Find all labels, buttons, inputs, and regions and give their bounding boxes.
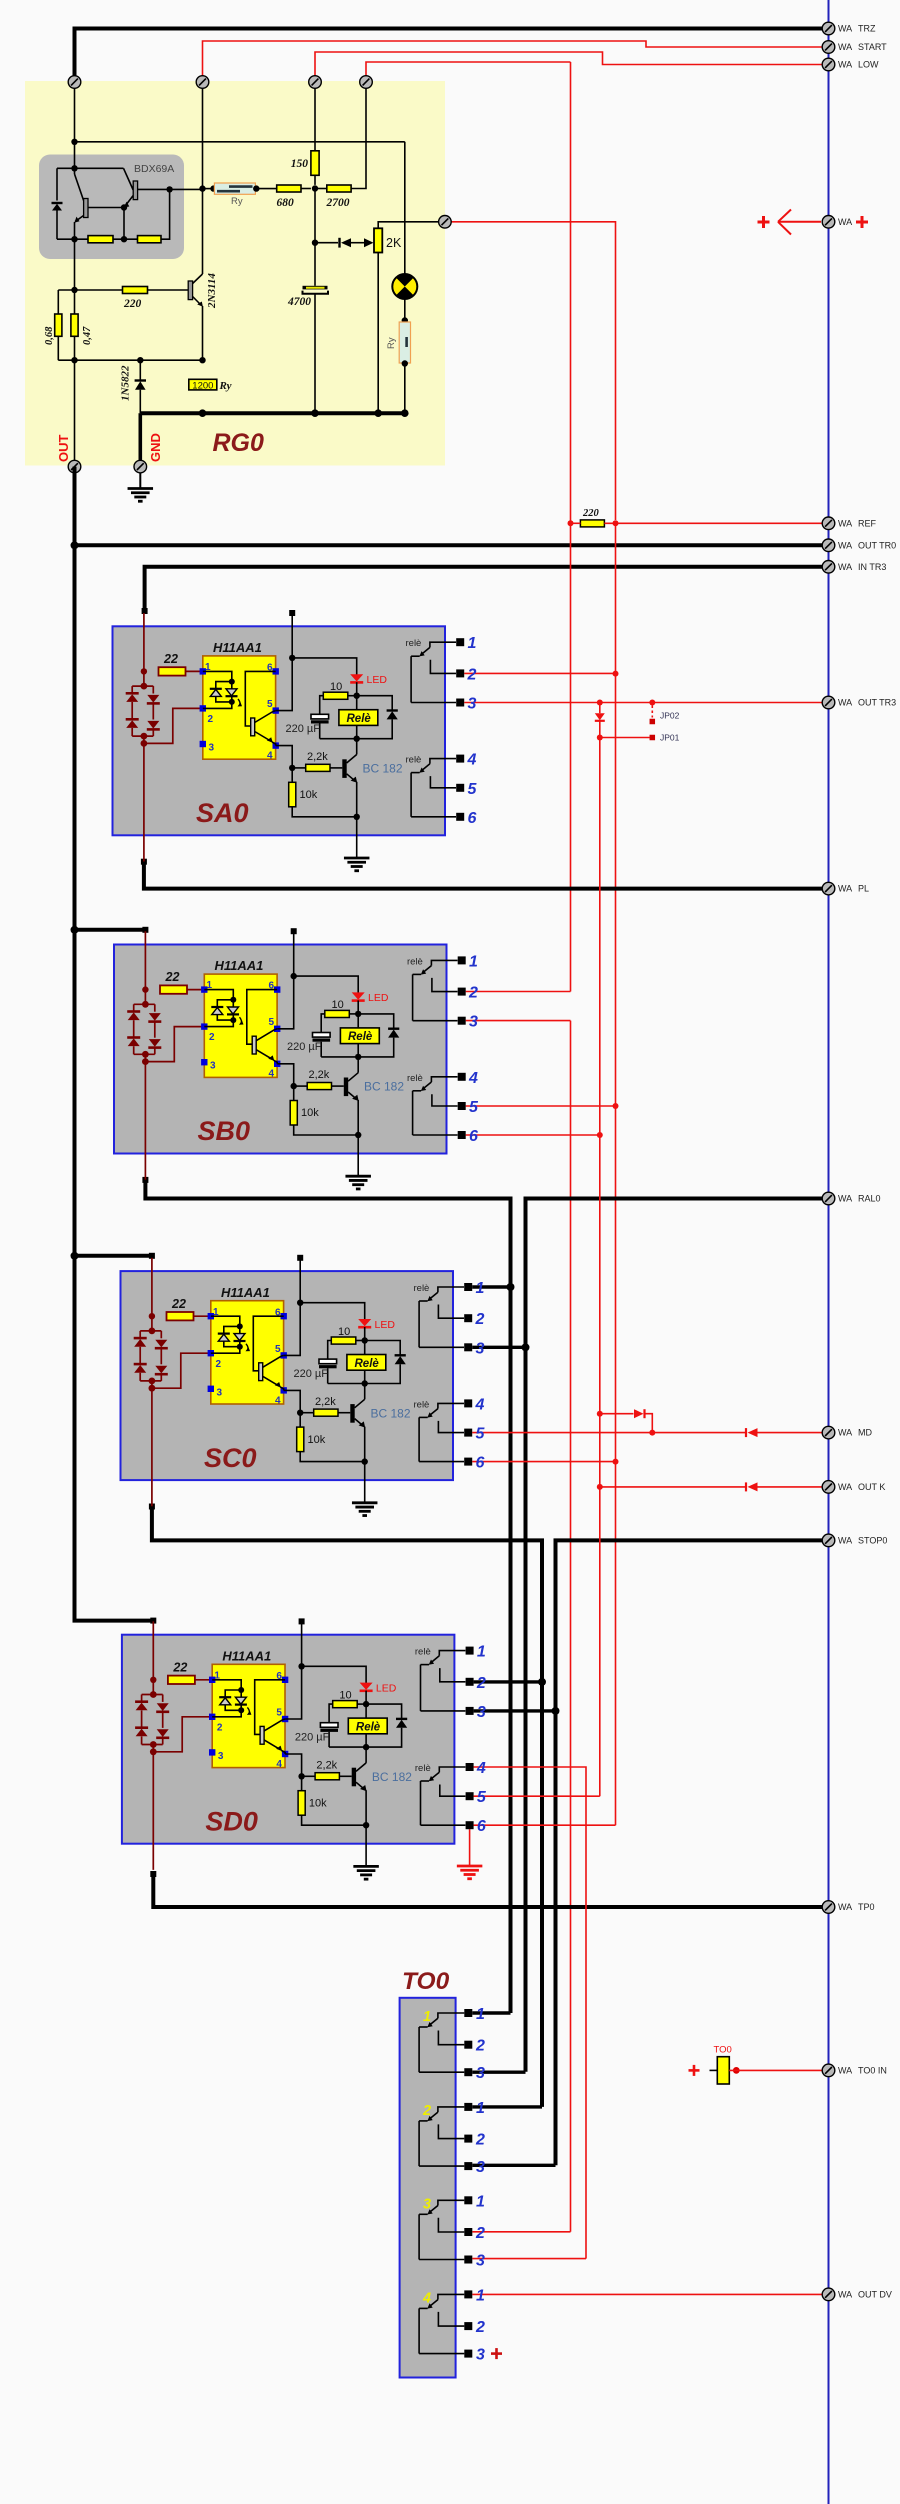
svg-text:WA: WA	[838, 217, 852, 227]
junction coil bottom SA0	[354, 736, 360, 742]
ground symbol SB0	[345, 1176, 371, 1189]
terminal OUT	[68, 460, 81, 473]
wire BDX69A collector rail	[74, 142, 76, 169]
red bus A segment 2	[570, 1021, 572, 2232]
wire to module ground SC0	[364, 1462, 366, 1503]
svg-text:Ry: Ry	[231, 196, 243, 207]
junction bridge tap SB0	[142, 1058, 149, 1065]
junction OUT TR0	[71, 541, 79, 549]
svg-text:WA: WA	[838, 1194, 852, 1204]
svg-text:4: 4	[267, 751, 273, 762]
svg-text:5: 5	[469, 1099, 479, 1116]
wire SB0 contact 2 to bus A	[466, 991, 571, 993]
terminal WA START	[822, 41, 835, 54]
wire pin4 to base node SD0	[285, 1754, 302, 1776]
opto phototransistor SD0	[255, 1680, 285, 1754]
relay coil box SD0	[348, 1718, 387, 1734]
terminal WA LOW	[822, 58, 835, 71]
wire SD0 contact 6 red	[474, 1824, 616, 1826]
optocoupler H11AA1 SD0	[212, 1664, 285, 1767]
wire SB0 contact 3 to bus A	[466, 1020, 571, 1022]
relay contact group 1 SD0	[421, 1651, 466, 1711]
wire LOW net from RG0 terminal 3	[315, 52, 822, 76]
wire STOP0 terminal segment	[556, 1540, 823, 2165]
jumper square JP01	[650, 735, 656, 741]
wire SD0 contact 5 red	[474, 1795, 600, 1797]
junction SC0 contact 1	[507, 1283, 515, 1291]
wire GND branch	[139, 413, 143, 460]
junction left bus SC0 feed	[71, 1252, 79, 1260]
wire OUT branch	[74, 360, 76, 460]
resistor 10k SB0	[290, 1086, 297, 1125]
svg-text:LED: LED	[367, 674, 388, 686]
wire base node to 2,2k SD0	[302, 1775, 316, 1777]
svg-text:OUT TR0: OUT TR0	[858, 540, 896, 550]
diode bridge SA0	[126, 671, 160, 736]
pin 4 SA0	[273, 742, 279, 748]
svg-text:4: 4	[269, 1069, 275, 1080]
junction bridge bottom SC0	[149, 1378, 156, 1385]
terminal WA REF	[822, 517, 835, 530]
wire RAL0 terminal segment	[526, 1199, 823, 2072]
junction bridge top SC0	[149, 1328, 156, 1335]
contact square 4-1 TO0	[464, 2290, 472, 2298]
svg-text:BC 182: BC 182	[363, 762, 403, 776]
wire emitter row	[58, 359, 202, 361]
svg-text:2: 2	[475, 1311, 485, 1328]
contact square 3 SB0	[458, 1017, 466, 1025]
diode OUT K into terminal	[746, 1482, 822, 1491]
svg-text:10: 10	[332, 999, 344, 1011]
svg-text:relè: relè	[406, 755, 422, 766]
svg-text:WA: WA	[838, 518, 852, 528]
wire feed branch SB0	[75, 928, 146, 932]
svg-text:WA: WA	[838, 562, 852, 572]
contact square 3 SD0	[466, 1707, 474, 1715]
svg-text:2: 2	[216, 1359, 222, 1370]
svg-text:1200: 1200	[192, 380, 213, 391]
wire LED to coil node SB0	[357, 1000, 359, 1014]
bottom square SA0	[141, 859, 147, 865]
junction emitter rail SD0	[363, 1822, 369, 1828]
svg-text:2,2k: 2,2k	[315, 1396, 336, 1408]
contact square 4 SD0	[466, 1763, 474, 1771]
terminal WA OUT_TR0	[822, 539, 835, 552]
pin 4 SB0	[274, 1061, 280, 1067]
wire resistor 10 loop SC0	[356, 1340, 365, 1342]
svg-text:OUT K: OUT K	[858, 1482, 885, 1492]
wire top rail to LED SC0	[300, 1303, 365, 1320]
wire + net from terminal to red bus B	[445, 222, 616, 520]
wire SC0 feed dark red	[151, 1258, 153, 1316]
junction cap node	[312, 240, 318, 246]
junction SB0 feed	[142, 986, 148, 992]
svg-text:0,47: 0,47	[82, 326, 93, 345]
svg-text:22: 22	[165, 970, 180, 984]
pin 5 SC0	[281, 1352, 287, 1358]
junction GND rail d	[401, 409, 409, 417]
bottom square SC0	[149, 1504, 155, 1510]
wire lamp branch vertical	[404, 142, 406, 274]
junction BDX69A emitter node	[71, 236, 77, 242]
svg-text:3: 3	[218, 1751, 224, 1762]
junction MD diode branch on bus C	[597, 1411, 603, 1417]
junction RG0 top rail	[71, 139, 77, 145]
junction bridge top SD0	[150, 1691, 157, 1698]
ground symbol SC0	[352, 1503, 378, 1516]
junction coil top SA0	[354, 693, 360, 699]
junction emitter row c	[199, 357, 205, 363]
svg-text:5: 5	[275, 1344, 281, 1355]
svg-text:WA: WA	[838, 24, 852, 34]
relay coil Ry	[214, 183, 255, 194]
flyback diode SC0	[365, 1341, 406, 1384]
terminal WA PL	[822, 882, 835, 895]
wire 680 to node	[301, 188, 311, 190]
wire SD0 contact 4 red	[474, 1767, 586, 2259]
relay coil box SB0	[340, 1028, 379, 1044]
junction GND rail a	[199, 409, 207, 417]
wire SC0 contact 6 to bus B	[472, 1461, 615, 1463]
module TO0 box	[400, 1998, 456, 2378]
bottom square SB0	[142, 1177, 148, 1183]
svg-text:4: 4	[275, 1395, 281, 1406]
relay coil Ry 2	[399, 322, 410, 363]
svg-text:2K: 2K	[386, 236, 402, 250]
svg-text:6: 6	[476, 1455, 485, 1472]
wire LED to coil node SC0	[364, 1327, 366, 1341]
wire IN TR3 drop to SA0	[144, 608, 146, 611]
pin 1 SB0	[201, 986, 207, 992]
junction coil bottom SB0	[355, 1054, 361, 1060]
wire base node to 2,2k SA0	[292, 767, 306, 769]
wire SD0 contact 6 ground stub	[469, 1829, 471, 1865]
module SB0 box	[114, 945, 447, 1154]
svg-text:4: 4	[468, 1070, 478, 1087]
wire SA0 feed dark red	[143, 613, 145, 671]
capacitor 220uF SA0	[311, 714, 329, 738]
contact square 4-2 TO0	[464, 2322, 472, 2330]
svg-text:2: 2	[467, 666, 477, 683]
resistor 22 SA0	[159, 667, 186, 675]
contact square 4 SB0	[458, 1073, 466, 1081]
wire bridge to pin2 SC0	[151, 1381, 153, 1388]
svg-text:Relè: Relè	[347, 713, 372, 725]
stub square SD0 top	[299, 1618, 305, 1624]
svg-text:3: 3	[209, 743, 215, 754]
resistor 150	[311, 151, 319, 176]
junction thermal out	[733, 2067, 740, 2074]
pin 5 SA0	[273, 707, 279, 713]
wire TO0 2-3 to net D	[472, 2164, 555, 2167]
feed square SB0	[142, 927, 148, 933]
wire bridge output down SD0	[152, 1752, 154, 1870]
wire Ry2 to rail	[404, 364, 406, 414]
svg-text:220 µF: 220 µF	[295, 1731, 330, 1743]
opto LEDs SC0	[211, 1316, 250, 1353]
junction emitter rail SC0	[362, 1458, 368, 1464]
svg-text:TRZ: TRZ	[858, 24, 876, 34]
resistor 2,2k SC0	[314, 1409, 338, 1416]
transistor BC 182 SA0	[330, 739, 357, 817]
svg-text:1N5822: 1N5822	[120, 365, 132, 401]
terminal WA plus	[822, 216, 835, 229]
svg-text:10: 10	[330, 681, 342, 693]
wire divider to cap node	[314, 189, 316, 241]
svg-text:relè: relè	[406, 638, 422, 649]
opto phototransistor SB0	[247, 990, 277, 1064]
relay contact group 1 SB0	[413, 960, 458, 1020]
svg-text:2: 2	[209, 1032, 215, 1043]
junction bus B at SA0 relay 2	[613, 671, 619, 677]
junction MD branch	[649, 1430, 655, 1436]
svg-text:Ry: Ry	[219, 380, 232, 392]
stub square SB0 top	[291, 928, 297, 934]
diode bridge SD0	[135, 1680, 169, 1745]
junction REF right	[613, 520, 619, 526]
svg-text:5: 5	[267, 699, 273, 710]
terminal WA IN_TR3	[822, 561, 835, 574]
svg-text:1: 1	[476, 1280, 485, 1297]
wire diode branch BDX69A	[56, 168, 58, 200]
junction Ry coil left	[199, 185, 205, 191]
svg-text:0,68: 0,68	[44, 326, 55, 345]
contact square 3-1 TO0	[464, 2196, 472, 2204]
terminal WA OUT_DV	[822, 2288, 835, 2301]
switch contact group 2 TO0	[419, 2107, 464, 2166]
contact square 6 SD0	[466, 1821, 474, 1829]
svg-text:LOW: LOW	[858, 60, 879, 70]
svg-text:2: 2	[217, 1722, 223, 1733]
wire top rail to LED SA0	[292, 658, 357, 675]
svg-text:SA0: SA0	[196, 798, 249, 828]
svg-text:3: 3	[476, 2347, 485, 2364]
terminal WA TRZ	[822, 22, 835, 35]
svg-text:SB0: SB0	[198, 1116, 251, 1146]
wire 22 to pin1 SC0	[194, 1315, 211, 1317]
svg-text:4: 4	[475, 1396, 485, 1413]
wire SB0 contact 6 to bus C	[466, 1134, 600, 1136]
terminal RG0 2	[196, 76, 209, 89]
junction BDX69A collector node	[71, 165, 77, 171]
wire base node to 2,2k SC0	[300, 1412, 314, 1414]
svg-text:2: 2	[208, 714, 214, 725]
wire pin4 to base node SC0	[284, 1390, 301, 1412]
wire SA0 to PL	[144, 864, 822, 889]
junction base divider SA0	[289, 765, 295, 771]
junction bridge bottom SB0	[142, 1051, 149, 1058]
svg-text:RAL0: RAL0	[858, 1194, 881, 1204]
jumper JP02 dashed	[651, 706, 653, 718]
pin 6 SB0	[274, 986, 280, 992]
terminal WA RAL0	[822, 1192, 835, 1205]
wire base row	[58, 289, 122, 291]
svg-text:LED: LED	[368, 992, 389, 1004]
svg-text:3: 3	[468, 696, 477, 713]
junction base divider SC0	[297, 1410, 303, 1416]
terminal RG0 4	[360, 76, 373, 89]
contact square 6 SB0	[458, 1131, 466, 1139]
wire TO0 3-2 to bus A	[472, 2231, 570, 2233]
transistor 2N3114	[148, 189, 203, 361]
wire bridge to pin2 SA0	[143, 736, 145, 743]
label plus right of WA	[856, 216, 868, 228]
relay contact group 1 SC0	[419, 1287, 464, 1347]
svg-text:10k: 10k	[300, 789, 318, 801]
ground symbol RG0	[128, 473, 154, 501]
stub square SA0 top	[289, 610, 295, 616]
resistor 10 SD0	[333, 1701, 358, 1708]
svg-text:TO0 IN: TO0 IN	[858, 2065, 887, 2075]
svg-text:4: 4	[476, 1760, 486, 1777]
svg-text:WA: WA	[838, 1902, 852, 1912]
junction bridge top SB0	[142, 1001, 149, 1008]
junction SA0 feed	[141, 668, 147, 674]
wire 2K top to + terminal	[378, 222, 439, 229]
resistor 2700	[327, 185, 351, 192]
svg-text:2: 2	[475, 2319, 485, 2336]
wire to module ground SB0	[357, 1135, 359, 1176]
svg-text:1: 1	[476, 2193, 485, 2210]
net bus vertical blue line	[828, 0, 830, 2504]
wire 22 to pin1 SA0	[186, 670, 203, 672]
junction SB0 contact 5 bus B	[613, 1103, 619, 1109]
junction SC0 feed	[149, 1313, 155, 1319]
svg-text:22: 22	[172, 1660, 187, 1674]
diode MD into terminal	[746, 1428, 822, 1437]
junction bridge bottom SD0	[150, 1741, 157, 1748]
opto phototransistor SA0	[245, 671, 275, 745]
terminal GND	[134, 460, 147, 473]
diode MD branch	[600, 1409, 653, 1432]
flyback diode SD0	[366, 1704, 407, 1747]
svg-text:2,2k: 2,2k	[307, 751, 328, 763]
svg-text:10k: 10k	[301, 1107, 319, 1119]
wire Ry to 680	[256, 188, 276, 190]
opto LEDs SA0	[203, 671, 242, 708]
wire TO0 4-1 OUT DV	[472, 2293, 822, 2295]
wire GND rail thick	[140, 411, 405, 415]
pin 4 SD0	[282, 1751, 288, 1757]
svg-text:2,2k: 2,2k	[309, 1069, 330, 1081]
wire OUT K	[600, 1486, 746, 1488]
wire BDX69A bottom rail right to base riser	[161, 189, 170, 239]
svg-text:WA: WA	[838, 698, 852, 708]
junction base divider SB0	[291, 1083, 297, 1089]
switch contact group 1 TO0	[419, 2013, 464, 2072]
resistor 0,68	[55, 314, 62, 336]
label plus left of arrow	[758, 216, 770, 228]
terminal WA OUT_K	[822, 1481, 835, 1494]
contact square 6 SC0	[464, 1458, 472, 1466]
junction pin5 node SA0	[289, 655, 295, 661]
wire base node to bottom rail	[123, 208, 125, 240]
wire SC0 contact 3 to net B	[472, 1346, 525, 1349]
capacitor 220uF SD0	[320, 1723, 338, 1747]
svg-text:WA: WA	[838, 42, 852, 52]
ground symbol SD0	[353, 1866, 379, 1879]
svg-text:10k: 10k	[308, 1434, 326, 1446]
resistor 2,2k SB0	[307, 1083, 331, 1090]
svg-text:5: 5	[269, 1017, 275, 1028]
pin 4 SC0	[281, 1387, 287, 1393]
svg-text:3: 3	[210, 1061, 216, 1072]
wire to module ground SA0	[356, 817, 358, 858]
bottom square SD0	[150, 1871, 156, 1877]
svg-text:PL: PL	[858, 884, 869, 894]
resistor 22 SB0	[160, 985, 187, 993]
contact square 5 SC0	[464, 1429, 472, 1437]
wire 22 to pin1 SD0	[195, 1679, 212, 1681]
svg-text:SD0: SD0	[205, 1806, 258, 1836]
wire terminal3 branch	[314, 82, 316, 151]
terminal RG0 3	[309, 76, 322, 89]
contact square 3 SA0	[456, 699, 464, 707]
RG0 regulator block background	[25, 81, 445, 466]
wire LED to coil node SA0	[356, 682, 358, 696]
wire bridge to pin2 SD0	[152, 1745, 154, 1752]
wire coil bottom rail SD0	[329, 1746, 366, 1748]
svg-text:220: 220	[582, 508, 600, 519]
diode bridge SB0	[127, 990, 161, 1055]
pin 2 SB0	[201, 1023, 207, 1029]
contact square 4 SA0	[456, 755, 464, 763]
svg-text:relè: relè	[414, 1399, 430, 1410]
wire emitter rail SB0	[294, 1125, 359, 1135]
contact square 1 SB0	[458, 956, 466, 964]
wire emitter rail SC0	[300, 1452, 365, 1462]
terminal plus RG0	[439, 216, 452, 229]
wire resistor bottoms	[57, 336, 59, 360]
wire emitter rail SA0	[292, 807, 357, 817]
svg-text:2N3114: 2N3114	[206, 273, 218, 309]
svg-text:10: 10	[339, 1689, 351, 1701]
wire left bus corner to SD0 feed	[75, 1619, 154, 1621]
wire to module ground SD0	[365, 1825, 367, 1866]
svg-text:22: 22	[163, 652, 178, 666]
contact square 3-2 TO0	[464, 2228, 472, 2236]
flyback diode SA0	[357, 696, 398, 739]
terminal WA OUT_TR3	[822, 696, 835, 709]
junction OUT TR3 JP branch	[649, 700, 655, 706]
junction SD0 feed	[150, 1677, 156, 1683]
trimmer 2K	[374, 228, 382, 252]
junction bridge bottom SA0	[141, 733, 148, 740]
contact square 1 SA0	[456, 638, 464, 646]
svg-text:OUT TR3: OUT TR3	[858, 698, 896, 708]
relay coil box SA0	[339, 710, 378, 726]
junction JP01 node	[597, 735, 603, 741]
wire START net from RG0 terminal 2	[203, 41, 823, 76]
contact square 1-2 TO0	[464, 2041, 472, 2049]
contact square 2 SC0	[464, 1314, 472, 1322]
svg-text:relè: relè	[415, 1763, 431, 1774]
wire 2K bottom	[377, 253, 379, 414]
svg-text:2: 2	[475, 2225, 485, 2242]
terminal WA TP0	[822, 1901, 835, 1914]
optocoupler H11AA1 SC0	[211, 1301, 284, 1404]
svg-text:2: 2	[475, 2132, 485, 2149]
junction SC0 contact 6 bus B	[613, 1459, 619, 1465]
svg-text:1: 1	[476, 2006, 485, 2023]
LED SB0	[352, 992, 365, 1000]
junction pin5 node SC0	[297, 1300, 303, 1306]
junction SC0 contact 3	[522, 1343, 530, 1351]
diode bridge SC0	[134, 1316, 168, 1381]
svg-text:BC 182: BC 182	[371, 1406, 411, 1420]
svg-text:relè: relè	[414, 1283, 430, 1294]
lamp Ry indicator	[392, 274, 417, 299]
